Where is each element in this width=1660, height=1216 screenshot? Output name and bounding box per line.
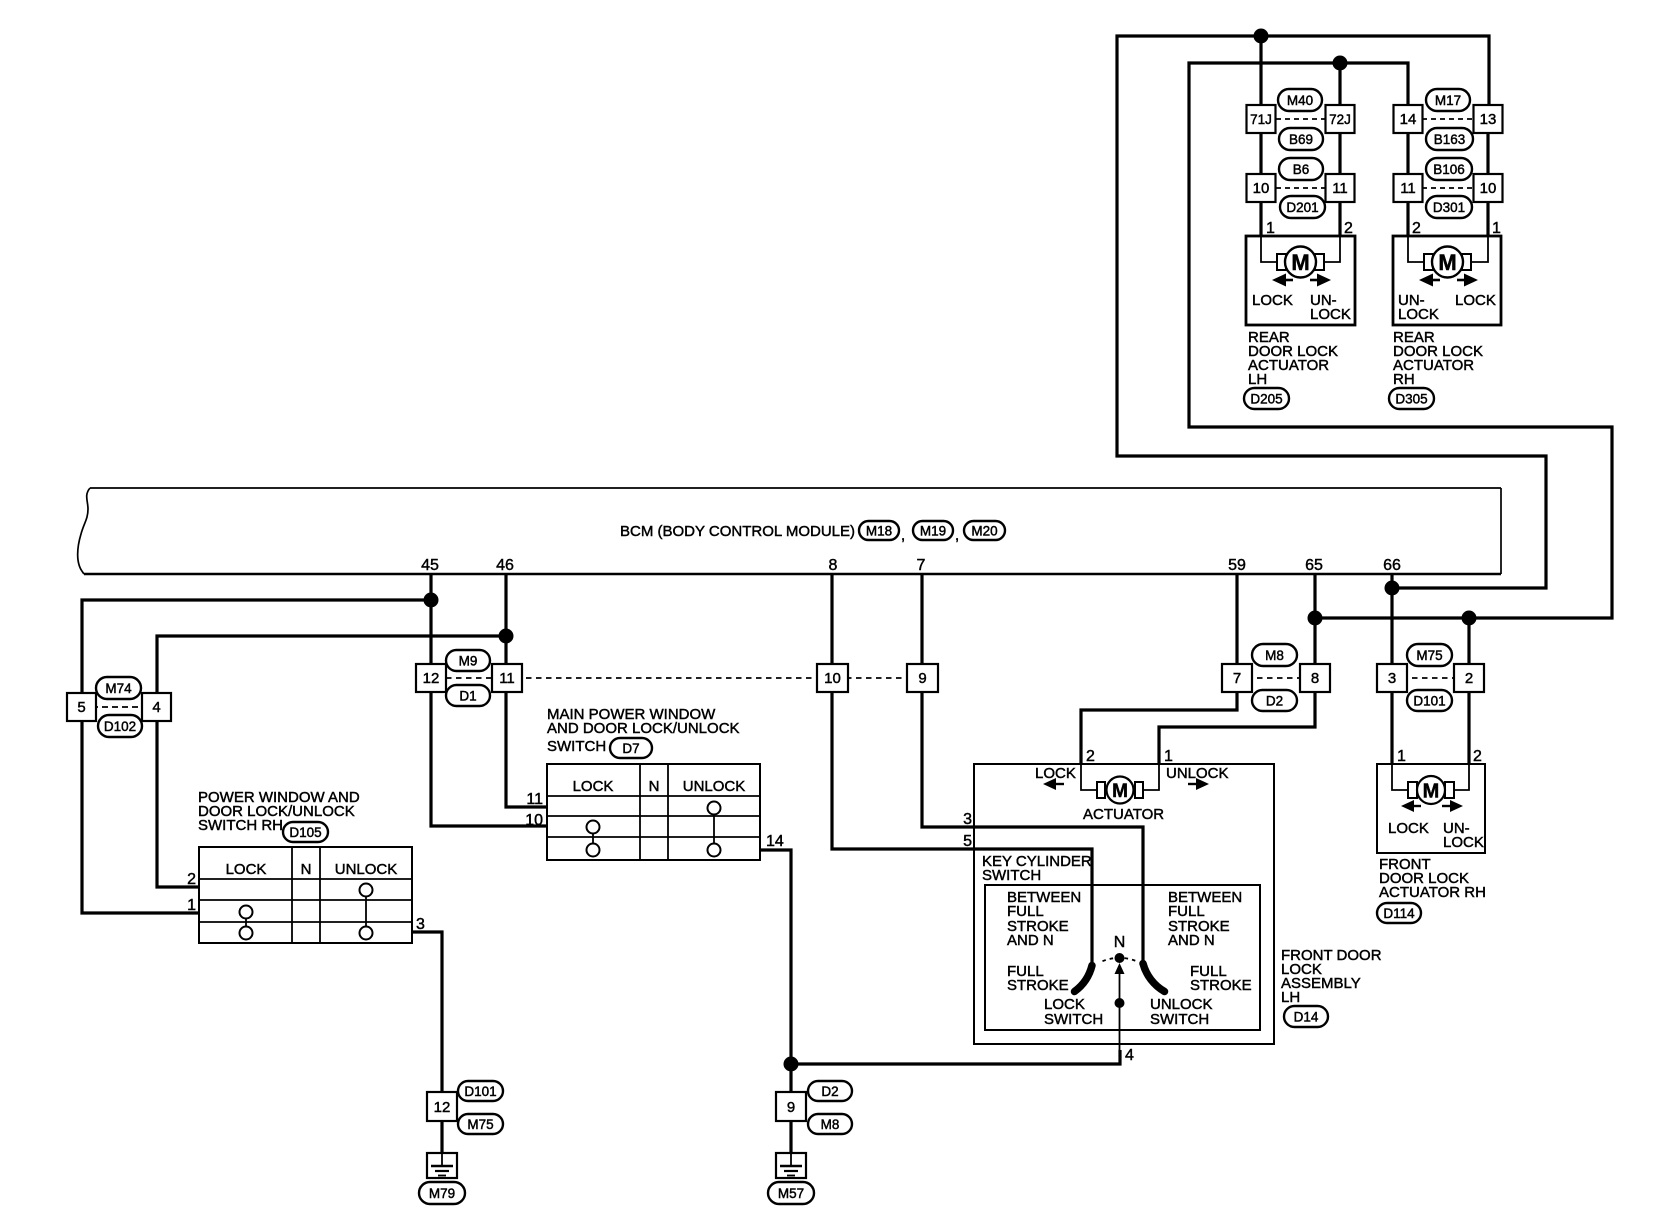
assembly actuator inner wire pin 2 [1081, 764, 1098, 790]
svg-text:1: 1 [1266, 220, 1275, 237]
svg-text:BCM (BODY CONTROL MODULE): BCM (BODY CONTROL MODULE) [620, 523, 855, 540]
front RH motor brush right [1445, 782, 1454, 798]
svg-text:1: 1 [1492, 220, 1501, 237]
assembly motor brush right [1135, 782, 1143, 798]
assembly motor brush left [1097, 782, 1105, 798]
RH lock direction arrow [1464, 274, 1478, 287]
LH unlock direction arrow [1317, 274, 1331, 287]
RH motor brush left [1424, 254, 1433, 270]
connector label M20 [964, 521, 1005, 540]
svg-text:SWITCH: SWITCH [982, 867, 1041, 884]
svg-text:10: 10 [525, 812, 543, 829]
dashed mating line M17/B163 [1422, 118, 1474, 120]
svg-text:D205: D205 [1250, 392, 1282, 407]
svg-text:LOCK: LOCK [1388, 820, 1429, 837]
LH actuator inner wire pin 2 [1324, 236, 1340, 262]
D105 contact circle unlock row2 [360, 884, 373, 897]
connector label D201 [1280, 196, 1325, 218]
svg-text:AND N: AND N [1168, 932, 1215, 949]
junction dot bus2 / 72J drop [1333, 56, 1348, 71]
svg-text:AND N: AND N [1007, 932, 1054, 949]
svg-text:M40: M40 [1287, 93, 1313, 108]
svg-text:2: 2 [1465, 670, 1473, 687]
svg-text:LOCK: LOCK [1310, 306, 1351, 323]
svg-text:2: 2 [1344, 220, 1353, 237]
wire bus2 drop to connector 72J [1338, 63, 1341, 105]
wiper arrow at N [1115, 963, 1125, 974]
wiper stem wire [1119, 974, 1121, 1052]
svg-text:M18: M18 [866, 524, 892, 539]
dashed mating line M9/D1 (pins 12,11,10,9) [446, 677, 922, 679]
svg-text:B163: B163 [1434, 132, 1466, 147]
BCM box top edge [90, 487, 1501, 489]
svg-text:45: 45 [421, 557, 439, 574]
wire pin 9 to ground M57 [789, 1121, 792, 1153]
ground label M57 [768, 1182, 814, 1204]
connector label D114 [1377, 903, 1421, 923]
connector pin box 11 (M9/D1) [492, 664, 522, 692]
svg-text:9: 9 [918, 670, 926, 687]
connector label D101 (ground side) [458, 1081, 503, 1101]
connector label D301 [1426, 196, 1472, 218]
svg-text:LOCK: LOCK [1443, 834, 1484, 851]
connector label B6 [1279, 158, 1323, 180]
svg-text:46: 46 [496, 557, 514, 574]
svg-text:12: 12 [434, 1099, 451, 1116]
wire bus1 drop to connector 71J [1259, 36, 1262, 105]
svg-text:5: 5 [77, 699, 85, 716]
wire BCM pin 65 to lock assembly pin 1 [1159, 574, 1315, 764]
svg-text:N: N [1114, 934, 1126, 951]
D105 switch table [199, 847, 412, 943]
connector pin box 8 (M8/D2) [1300, 664, 1330, 692]
key cylinder N contact dot [1115, 953, 1125, 963]
wire BCM pin 8 to key cylinder lock switch (5) [832, 574, 1092, 966]
D7 contact circle unlock row3 [708, 844, 721, 857]
svg-text:D305: D305 [1395, 392, 1427, 407]
svg-text:M: M [1423, 781, 1440, 803]
D7 contact circle lock row3 [587, 844, 600, 857]
connector label D305 [1389, 388, 1434, 409]
connector pin box 10 (M9/D1) [817, 664, 848, 692]
junction dot on pin 45 wire [424, 593, 439, 608]
svg-text:11: 11 [1332, 180, 1348, 197]
LH motor brush left [1277, 254, 1286, 270]
svg-text:10: 10 [1253, 180, 1270, 197]
wire D301 pin 11 to rear actuator RH pin 2 [1406, 202, 1409, 236]
svg-text:8: 8 [1311, 670, 1319, 687]
svg-text:,: , [901, 527, 905, 544]
svg-text:N: N [301, 861, 312, 878]
svg-text:D101: D101 [464, 1084, 496, 1099]
connector label D7 [610, 738, 652, 758]
front door lock actuator RH box [1377, 764, 1485, 853]
svg-text:M19: M19 [920, 524, 946, 539]
connector pin box 7 (M8/D2) [1222, 664, 1252, 692]
connector label D14 [1284, 1006, 1328, 1027]
rear door lock actuator RH box [1393, 236, 1501, 325]
svg-text:71J: 71J [1250, 112, 1272, 127]
svg-text:LOCK: LOCK [1398, 306, 1439, 323]
connector pin box 10 (RH chain) [1474, 174, 1503, 202]
BCM torn left edge [78, 488, 90, 574]
unlock side full stroke arc [1143, 964, 1165, 992]
connector pin box 10 (LH chain) [1247, 174, 1276, 202]
svg-text:M: M [1112, 781, 1128, 802]
wire pin 12 to ground M79 [440, 1121, 443, 1153]
svg-text:D301: D301 [1433, 200, 1465, 215]
svg-text:LH: LH [1248, 371, 1267, 388]
svg-text:11: 11 [1400, 180, 1416, 197]
connector pin box 13 (RH chain) [1474, 105, 1503, 133]
svg-text:D14: D14 [1294, 1010, 1319, 1025]
wire D301 pin 10 to rear actuator RH pin 1 [1486, 202, 1489, 236]
front RH inner wire pin 1 [1392, 764, 1409, 790]
key cylinder wiper pivot dot [1115, 998, 1125, 1008]
connector pin box 11 (RH chain) [1394, 174, 1423, 202]
connector label M75 [1407, 644, 1452, 666]
svg-text:N: N [649, 778, 660, 795]
svg-text:M8: M8 [821, 1117, 840, 1132]
dashed mating line M74/D102 [82, 706, 157, 708]
wire BCM pin 7 to key cylinder unlock switch (3) [922, 574, 1143, 964]
unlock direction arrow (assembly) [1196, 778, 1209, 790]
connector label M9 [446, 650, 490, 671]
junction dot ground wire / key cylinder pin 4 branch [784, 1057, 799, 1072]
svg-text:D201: D201 [1286, 200, 1318, 215]
svg-text:8: 8 [829, 557, 838, 574]
D7 contact circle unlock row1 [708, 802, 721, 815]
svg-text:1: 1 [1397, 748, 1406, 765]
svg-text:LOCK: LOCK [226, 861, 267, 878]
connector pin box 11 (LH chain) [1326, 174, 1355, 202]
svg-text:M8: M8 [1265, 648, 1284, 663]
wire D105 pin 3 to ground M79 [412, 932, 442, 1092]
svg-text:M79: M79 [429, 1186, 455, 1201]
RH actuator inner wire pin 2 [1408, 236, 1425, 262]
svg-text:1: 1 [187, 897, 196, 914]
svg-text:SWITCH: SWITCH [1150, 1011, 1209, 1028]
front door lock assembly LH box [974, 764, 1274, 1044]
front RH lock arrow [1401, 800, 1414, 812]
svg-text:D102: D102 [104, 719, 136, 734]
connector label D2 [1252, 690, 1297, 711]
connector label M18 [859, 521, 899, 540]
connector label M19 [913, 521, 953, 540]
svg-text:RH: RH [1393, 371, 1415, 388]
svg-text:12: 12 [423, 670, 440, 687]
connector label M75 (ground side) [458, 1114, 503, 1134]
dashed mating line M40/B69 [1276, 118, 1325, 120]
wire branch to key cylinder switch pin 4 [791, 1050, 1120, 1064]
connector label D205 [1244, 388, 1289, 409]
svg-text:STROKE: STROKE [1007, 977, 1069, 994]
wire BCM pin 45 to D7 switch pin 10 [431, 574, 547, 826]
svg-text:5: 5 [963, 833, 972, 850]
wire BCM pin 46 to D7 switch pin 11 [506, 574, 547, 807]
D105 contact link unlock [365, 897, 367, 927]
dashed wiper travel arc [1103, 958, 1137, 961]
D7 contact link unlock [713, 815, 715, 844]
svg-text:2: 2 [1473, 748, 1482, 765]
connector label D1 [446, 685, 490, 706]
D105 contact circle lock row1 [240, 906, 253, 919]
dashed mating line M8/D2 [1237, 677, 1315, 679]
svg-text:UNLOCK: UNLOCK [683, 778, 746, 795]
wire pin 45 branch to D105 switch pin 1 [82, 600, 431, 913]
junction dot on pin 46 wire [499, 629, 514, 644]
junction dot bus1 / 71J drop [1254, 29, 1269, 44]
svg-text:M: M [1291, 250, 1309, 275]
svg-text:M: M [1438, 250, 1456, 275]
svg-text:M20: M20 [971, 524, 997, 539]
connector box D101/M75 pin 12 (ground M79) [427, 1092, 457, 1121]
connector label B106 [1426, 158, 1472, 180]
connector box D2/M8 pin 9 (ground M57) [776, 1092, 806, 1121]
junction dot pin 66 / rear bus 1 [1385, 581, 1400, 596]
svg-text:3: 3 [963, 811, 972, 828]
connector label B69 [1279, 128, 1323, 150]
svg-text:LOCK: LOCK [1252, 292, 1293, 309]
svg-text:UNLOCK: UNLOCK [335, 861, 398, 878]
motor M2 body (rear RH) [1432, 247, 1463, 278]
svg-text:M74: M74 [105, 681, 132, 696]
svg-text:7: 7 [1233, 670, 1241, 687]
svg-text:D7: D7 [622, 741, 639, 756]
wire 72J to pin 11 (B6/D201) [1338, 133, 1341, 174]
connector pin box 5 (M74/D102) [67, 693, 96, 721]
D105 contact circle unlock row3 [360, 927, 373, 940]
svg-text:11: 11 [526, 791, 543, 808]
motor M3 body (assembly actuator) [1107, 777, 1134, 804]
RH motor brush right [1462, 254, 1471, 270]
dashed mating line B6/D201 [1276, 187, 1325, 189]
connector label M17 [1426, 89, 1470, 111]
svg-text:M9: M9 [459, 654, 478, 669]
svg-text:D2: D2 [821, 1084, 838, 1099]
svg-text:SWITCH RH: SWITCH RH [198, 817, 283, 834]
svg-text:59: 59 [1228, 557, 1246, 574]
connector pin box 72J [1326, 105, 1355, 133]
svg-text:AND DOOR LOCK/UNLOCK: AND DOOR LOCK/UNLOCK [547, 720, 740, 737]
front RH motor brush left [1408, 782, 1417, 798]
assembly actuator inner wire pin 1 [1142, 764, 1159, 790]
svg-text:B106: B106 [1433, 162, 1465, 177]
svg-text:66: 66 [1383, 557, 1401, 574]
ground label M79 [419, 1182, 465, 1204]
svg-text:ACTUATOR: ACTUATOR [1083, 806, 1164, 823]
connector label D102 [98, 715, 142, 737]
svg-text:65: 65 [1305, 557, 1323, 574]
D105 contact circle lock row3 [240, 927, 253, 940]
lock side full stroke arc [1075, 966, 1093, 992]
connector pin box 71J [1247, 105, 1276, 133]
connector label D101 [1407, 690, 1452, 711]
svg-text:14: 14 [766, 833, 784, 850]
wire power feed bus 1 to rear actuators (from BCM pin 66 junction) [1117, 36, 1546, 588]
svg-text:B6: B6 [1293, 162, 1310, 177]
connector label D2 (ground side) [808, 1081, 852, 1101]
dashed mating line B106/D301 [1422, 187, 1474, 189]
wire branch to front actuator RH pin 2 [1467, 618, 1470, 764]
RH actuator inner wire pin 1 [1471, 236, 1488, 262]
wire D201 pin 10 to rear actuator LH pin 1 [1259, 202, 1262, 236]
svg-text:D101: D101 [1413, 694, 1445, 709]
svg-text:SWITCH: SWITCH [1044, 1011, 1103, 1028]
svg-text:M57: M57 [778, 1186, 804, 1201]
D7 contact circle lock row2 [587, 821, 600, 834]
connector pin box 12 (M9/D1) [416, 664, 446, 692]
wire pin 46 branch to D105 switch pin 2 [157, 636, 506, 887]
connector label M8 [1252, 644, 1297, 666]
D7 contact link lock [592, 834, 594, 844]
svg-text:M75: M75 [467, 1117, 493, 1132]
svg-text:LOCK: LOCK [1455, 292, 1496, 309]
front RH unlock arrow [1450, 800, 1463, 812]
svg-text:M17: M17 [1435, 93, 1461, 108]
wire 14 to pin 11 (B106/D301) [1406, 133, 1409, 174]
svg-text:72J: 72J [1329, 112, 1351, 127]
ground symbol M79 [427, 1153, 457, 1178]
svg-text:14: 14 [1400, 111, 1417, 128]
connector pin box 2 (M75/D101) [1454, 664, 1484, 692]
RH unlock direction arrow [1419, 274, 1433, 287]
connector label M8 (ground side) [808, 1114, 852, 1134]
BCM box bottom edge [84, 573, 1501, 575]
connector pin box 3 (M75/D101) [1377, 664, 1407, 692]
LH lock direction arrow [1272, 274, 1286, 287]
dashed mating line M75/D101 [1392, 677, 1469, 679]
svg-text:D114: D114 [1383, 906, 1415, 921]
svg-text:LOCK: LOCK [573, 778, 614, 795]
motor M4 body (front RH) [1417, 776, 1445, 804]
svg-text:M75: M75 [1416, 648, 1442, 663]
svg-text:1: 1 [1164, 748, 1173, 765]
connector pin box 14 (RH chain) [1394, 105, 1423, 133]
wire 13 to pin 10 (B106/D301) [1486, 133, 1489, 174]
svg-text:10: 10 [824, 670, 841, 687]
svg-text:4: 4 [152, 699, 160, 716]
svg-text:2: 2 [1086, 748, 1095, 765]
svg-text:D2: D2 [1266, 694, 1283, 709]
BCM box right edge [1500, 488, 1502, 574]
svg-text:9: 9 [787, 1099, 795, 1116]
rear door lock actuator LH box [1246, 236, 1355, 325]
D7 switch table [547, 764, 760, 860]
svg-text:ACTUATOR RH: ACTUATOR RH [1379, 884, 1486, 901]
junction dot pin 65 / rear bus 2 [1308, 611, 1323, 626]
svg-text:13: 13 [1480, 111, 1497, 128]
LH motor brush right [1315, 254, 1324, 270]
svg-text:,: , [955, 527, 959, 544]
svg-text:10: 10 [1480, 180, 1497, 197]
connector label B163 [1426, 128, 1473, 150]
wire D7 pin 14 to D2 pin 9 and ground M57 [760, 850, 791, 1092]
motor M1 body (rear LH) [1285, 247, 1316, 278]
connector pin box 4 (M74/D102) [142, 693, 171, 721]
connector label M74 [96, 677, 141, 699]
wire 71J to pin 10 (B6/D201) [1259, 133, 1262, 174]
ground symbol M57 [776, 1153, 806, 1178]
svg-text:SWITCH: SWITCH [547, 738, 606, 755]
svg-text:B69: B69 [1289, 132, 1313, 147]
key cylinder switch inner box [985, 885, 1260, 1030]
connector pin box 9 (M9/D1) [907, 664, 938, 692]
svg-text:3: 3 [1388, 670, 1396, 687]
wire BCM pin 66 to front actuator RH pin 1 [1390, 574, 1393, 764]
connector label D105 [283, 822, 328, 842]
connector label M40 [1278, 89, 1322, 111]
junction dot rear bus 2 / D101 pin 2 branch [1462, 611, 1477, 626]
front RH inner wire pin 2 [1452, 764, 1469, 790]
svg-text:LH: LH [1281, 989, 1300, 1006]
LH actuator inner wire pin 1 [1261, 236, 1278, 262]
wire power feed bus 2 to rear actuators (from BCM pin 65 junction) [1189, 63, 1612, 618]
lock direction arrow (assembly) [1043, 778, 1056, 790]
svg-text:STROKE: STROKE [1190, 977, 1252, 994]
wire BCM pin 59 to lock assembly pin 2 [1081, 574, 1237, 764]
svg-text:2: 2 [1412, 220, 1421, 237]
svg-text:D105: D105 [289, 825, 321, 840]
D105 contact link lock [245, 919, 247, 927]
svg-text:7: 7 [917, 557, 926, 574]
svg-text:D1: D1 [459, 689, 476, 704]
svg-text:2: 2 [187, 871, 196, 888]
svg-text:4: 4 [1125, 1047, 1134, 1064]
wire D201 pin 11 to rear actuator LH pin 2 [1338, 202, 1341, 236]
svg-text:11: 11 [499, 670, 515, 687]
